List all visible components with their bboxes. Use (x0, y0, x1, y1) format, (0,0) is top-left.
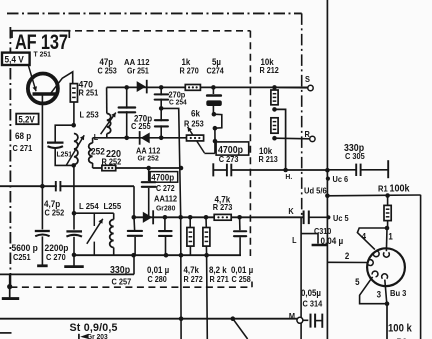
svg-text:C 271: C 271 (13, 143, 33, 152)
svg-text:L251: L251 (57, 149, 73, 158)
svg-text:C274: C274 (207, 66, 225, 75)
svg-text:4,7k: 4,7k (184, 264, 200, 275)
svg-text:4700p: 4700p (151, 172, 174, 183)
svg-text:1: 1 (388, 231, 393, 242)
svg-text:3: 3 (377, 289, 382, 300)
svg-text:C 252: C 252 (45, 208, 65, 217)
svg-text:330p: 330p (110, 264, 130, 275)
svg-text:L 254: L 254 (79, 202, 99, 211)
svg-text:R: R (305, 130, 311, 139)
svg-text:C 272: C 272 (156, 183, 175, 192)
svg-text:C 280: C 280 (148, 274, 167, 283)
svg-text:Gr 203: Gr 203 (87, 334, 108, 339)
svg-text:R 270: R 270 (180, 66, 199, 75)
svg-text:5: 5 (355, 276, 360, 287)
svg-text:68 p: 68 p (15, 131, 31, 142)
svg-text:St 0,9/0,5: St 0,9/0,5 (70, 322, 118, 334)
svg-text:C 270: C 270 (46, 253, 66, 262)
svg-text:R 253: R 253 (184, 119, 204, 128)
svg-text:C 253: C 253 (98, 66, 117, 75)
svg-text:270p: 270p (169, 90, 186, 99)
svg-text:4700p: 4700p (218, 144, 243, 155)
svg-text:AA112: AA112 (154, 194, 178, 203)
svg-text:2: 2 (345, 251, 350, 262)
svg-text:L: L (94, 133, 99, 142)
svg-text:R 272: R 272 (184, 274, 203, 283)
svg-text:R 213: R 213 (259, 155, 278, 164)
svg-text:Ud 5/6: Ud 5/6 (304, 186, 327, 195)
svg-text:252: 252 (91, 146, 105, 157)
svg-text:4: 4 (362, 231, 367, 242)
svg-text:R1: R1 (378, 184, 388, 193)
svg-text:5600 p: 5600 p (12, 242, 39, 253)
svg-text:Gr 251: Gr 251 (127, 66, 149, 75)
svg-text:Gr 252: Gr 252 (138, 153, 159, 162)
svg-text:C 257: C 257 (112, 277, 132, 286)
svg-text:6k: 6k (191, 108, 200, 119)
svg-text:C 305: C 305 (345, 151, 365, 160)
svg-text:L 253: L 253 (80, 110, 100, 119)
svg-text:2200p: 2200p (45, 242, 69, 253)
svg-text:H.: H. (285, 172, 292, 181)
svg-text:L: L (292, 235, 297, 244)
svg-text:C 255: C 255 (131, 122, 151, 131)
svg-text:Uc 5: Uc 5 (333, 214, 349, 223)
svg-text:5,2V: 5,2V (18, 114, 35, 125)
svg-text:R 252: R 252 (102, 157, 122, 166)
svg-text:Uc 6: Uc 6 (333, 174, 349, 183)
svg-text:C 258: C 258 (232, 274, 251, 283)
svg-text:C251: C251 (13, 253, 31, 262)
svg-text:K: K (288, 207, 294, 216)
svg-text:R 251: R 251 (79, 88, 99, 97)
svg-text:R 212: R 212 (260, 66, 279, 75)
svg-text:S: S (305, 75, 310, 84)
svg-text:0,05µ: 0,05µ (301, 288, 321, 299)
svg-text:L255: L255 (104, 202, 122, 211)
svg-text:100 k: 100 k (388, 323, 412, 335)
svg-text:M: M (289, 312, 295, 321)
svg-text:R 271: R 271 (210, 274, 230, 283)
svg-text:100k: 100k (390, 183, 411, 195)
svg-text:Bu 3: Bu 3 (390, 288, 407, 297)
svg-text:8,2 k: 8,2 k (209, 264, 227, 275)
svg-text:R 273: R 273 (213, 203, 233, 212)
svg-text:C 254: C 254 (169, 99, 187, 106)
svg-text:0,01 µ: 0,01 µ (147, 264, 169, 275)
svg-text:C 273: C 273 (219, 154, 239, 163)
svg-text:0,01 µ: 0,01 µ (231, 264, 253, 275)
svg-text:T 251: T 251 (34, 49, 51, 58)
svg-text:C 314: C 314 (303, 299, 323, 308)
svg-text:5,4 V: 5,4 V (5, 54, 24, 65)
svg-text:Gr280: Gr280 (156, 203, 175, 212)
